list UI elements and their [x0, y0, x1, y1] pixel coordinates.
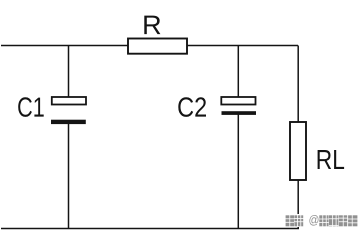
wire C2 branch lower: [237, 114, 239, 229]
wire C2 branch upper: [237, 46, 239, 98]
watermark halo: [284, 214, 360, 227]
watermark glyph tou: [285, 215, 294, 227]
wire bottom rail: [1, 228, 299, 230]
label C2: [178, 97, 206, 117]
label RL: [318, 150, 345, 169]
wire C1 branch upper: [68, 46, 70, 98]
wire right branch to RL: [297, 46, 299, 229]
watermark glyph tong: [329, 215, 339, 227]
capacitor C1 bottom plate: [51, 120, 86, 124]
label R: [144, 16, 160, 34]
wire C1 branch lower: [68, 124, 70, 229]
watermark glyph tiao: [294, 215, 303, 227]
capacitor C2 bottom plate: [222, 111, 257, 115]
watermark glyph nuan: [319, 215, 329, 227]
capacitor C1 top plate: [52, 97, 86, 105]
capacitor C2 top plate: [221, 97, 255, 105]
resistor RL: [290, 122, 306, 180]
watermark glyph she: [348, 215, 358, 227]
resistor R: [128, 39, 187, 54]
watermark glyph nan: [339, 215, 348, 227]
watermark glyph at-sign: [309, 215, 318, 226]
wire top rail: [1, 45, 298, 47]
label C1: [18, 97, 44, 117]
